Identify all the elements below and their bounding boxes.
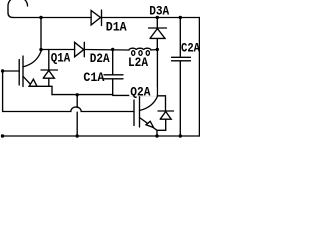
svg-text:D1A: D1A (106, 20, 127, 35)
wire right edge (198, 18, 200, 137)
wire Q2A emitter to bottom rail (156, 130, 158, 136)
diode D3A (149, 18, 167, 50)
transistor Q2A collector diagonal (140, 96, 158, 111)
diode D1A (91, 10, 101, 26)
wire L2A to D3A node (151, 49, 158, 52)
wire top rail left segment (14, 17, 92, 19)
svg-text:L2A: L2A (128, 55, 148, 70)
wire Q1A collector row (41, 49, 75, 51)
svg-text:C2A: C2A (181, 41, 200, 56)
transistor Q2A emitter diagonal (140, 118, 158, 131)
wire Q1A emitter row (29, 85, 52, 87)
wire gate drive vertical (2, 71, 4, 112)
wire top rail right segment (102, 17, 201, 19)
transistor Q2A emitter arrow (146, 121, 154, 127)
node dot Q1A collector (39, 48, 42, 51)
svg-text:D3A: D3A (149, 4, 169, 19)
label Q2A (129, 87, 156, 96)
wire top-left curl (8, 0, 28, 17)
node dot gate terminal (1, 69, 4, 72)
node dot bottom rail C2A (179, 134, 182, 137)
wire bus vertical to bottom rail (76, 95, 78, 136)
transistor Q2A gate bar (133, 100, 135, 126)
wire Q1A collector branch (40, 18, 42, 50)
svg-text:Q2A: Q2A (130, 85, 150, 100)
svg-text:Q1A: Q1A (51, 50, 71, 65)
transistor Q2A body bar (139, 97, 141, 128)
node dot L2A D3A (156, 48, 159, 51)
node dot bottom rail bus (76, 134, 79, 137)
wire emitter step down (51, 86, 53, 94)
node dot bottom rail left terminal (1, 134, 4, 137)
node dot top rail D1A branch (39, 16, 42, 19)
transistor Q1A gate bar (18, 60, 20, 86)
wire Q1A gate lead (3, 70, 20, 72)
svg-text:D2A: D2A (90, 51, 110, 66)
node dot top rail C2A (179, 16, 182, 19)
node dot top rail D3A (156, 16, 159, 19)
capacitor C2A (172, 18, 191, 137)
capacitor C1A (104, 50, 123, 95)
transistor Q1A emitter diagonal (23, 76, 32, 85)
svg-text:C1A: C1A (83, 70, 104, 85)
inductor L2A (129, 48, 151, 50)
wire gate drive horizontal with hop (3, 107, 134, 112)
transistor Q1A emitter arrow (29, 79, 37, 86)
node dot D2A cathode C1A (111, 48, 114, 51)
diode Q1A antiparallel (41, 50, 58, 87)
diode D2A (75, 42, 85, 57)
wire D2A cathode to C1A node (84, 49, 129, 52)
node dot bottom rail Q2A emitter (155, 134, 158, 137)
node dot mid bus (76, 93, 79, 96)
wire bottom rail (3, 135, 201, 137)
transistor Q1A body bar (22, 56, 24, 87)
diode Q2A antiparallel (157, 96, 174, 131)
wire Q2A collector vertical (156, 50, 158, 96)
wire mid row to Q2A collector (52, 94, 157, 97)
transistor Q1A collector diagonal (23, 50, 41, 67)
